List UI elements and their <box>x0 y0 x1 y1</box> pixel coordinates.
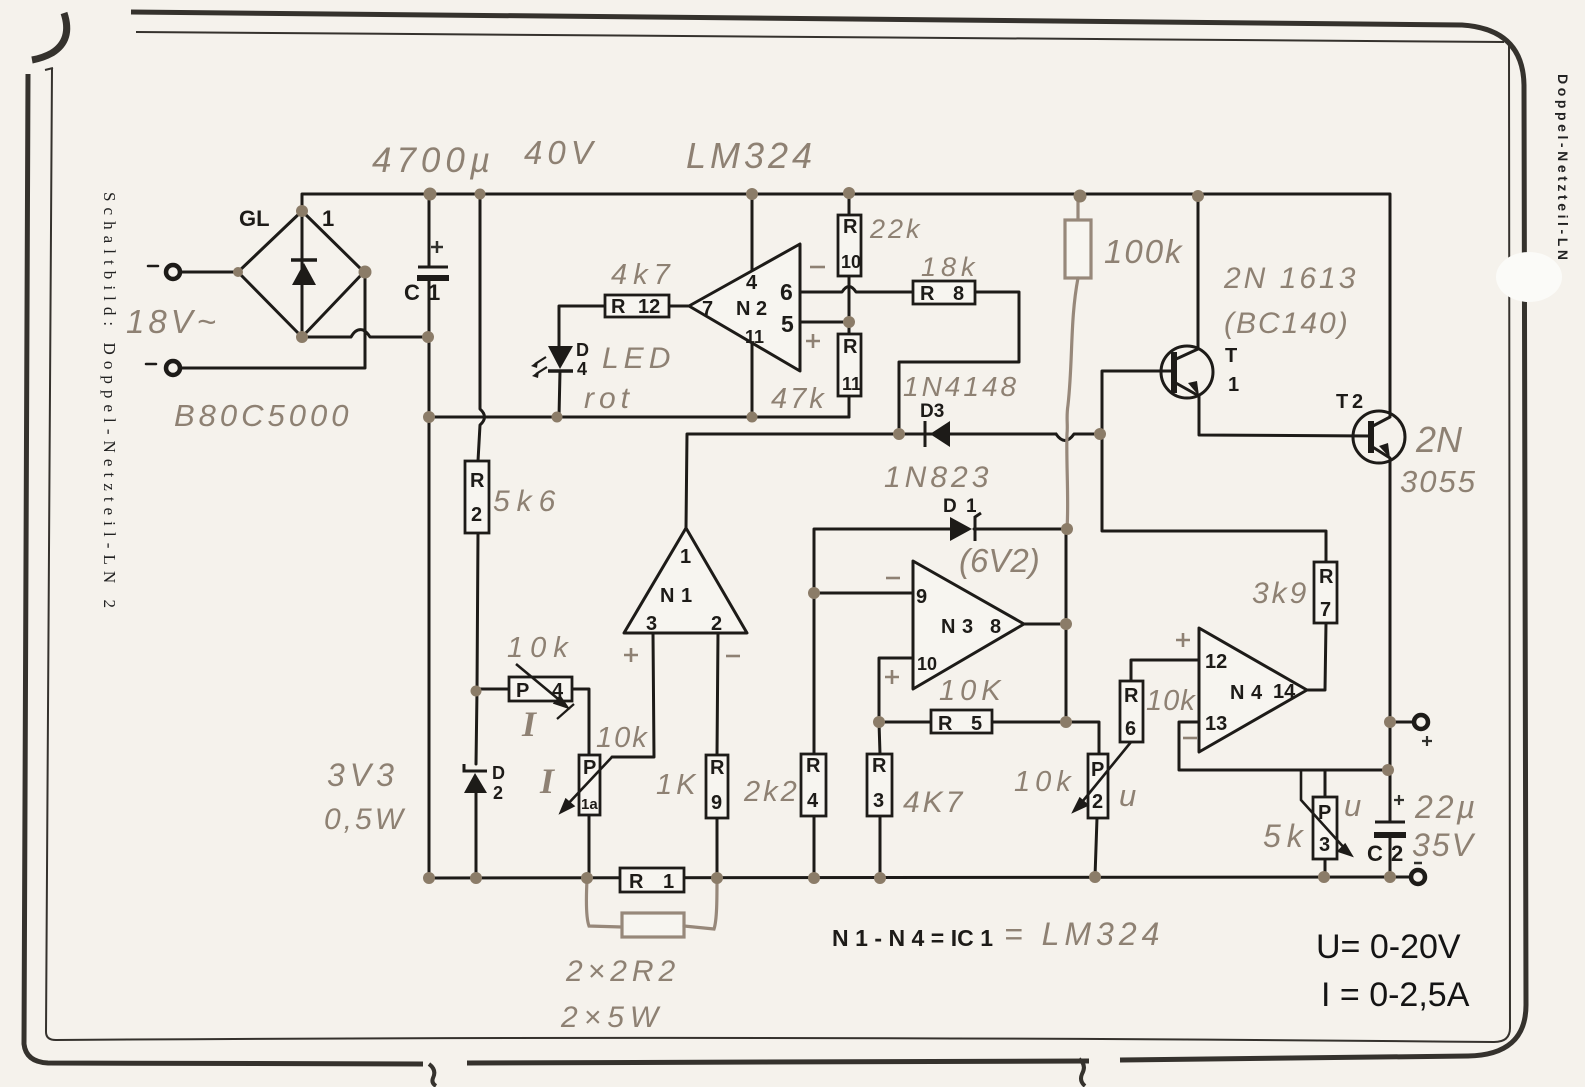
svg-text:12: 12 <box>1205 651 1227 673</box>
svg-text:22µ: 22µ <box>1414 789 1478 825</box>
svg-text:13: 13 <box>1205 713 1227 735</box>
svg-text:R: R <box>1319 566 1334 588</box>
svg-text:1: 1 <box>428 280 440 305</box>
svg-text:I: I <box>539 761 556 801</box>
svg-text:10: 10 <box>917 654 937 674</box>
svg-text:R: R <box>872 755 887 777</box>
svg-text:3: 3 <box>646 613 657 635</box>
svg-text:4700µ: 4700µ <box>372 141 495 180</box>
svg-text:R: R <box>1124 685 1139 707</box>
svg-text:P: P <box>1091 759 1104 781</box>
svg-text:4K7: 4K7 <box>903 786 965 819</box>
svg-text:Doppel-Netzteil-LN: Doppel-Netzteil-LN <box>1555 74 1571 260</box>
svg-text:47k: 47k <box>771 383 827 415</box>
svg-text:3: 3 <box>962 616 973 638</box>
svg-text:12: 12 <box>638 296 660 318</box>
svg-text:N 1 - N 4 = IC 1: N 1 - N 4 = IC 1 <box>832 925 993 951</box>
svg-text:3V3: 3V3 <box>327 757 399 793</box>
svg-text:2: 2 <box>711 613 722 635</box>
svg-text:5k: 5k <box>1263 818 1309 854</box>
svg-text:1: 1 <box>680 546 691 568</box>
svg-text:11: 11 <box>842 374 861 394</box>
svg-text:P: P <box>516 680 529 702</box>
svg-text:I: I <box>521 704 538 744</box>
svg-text:B80C5000: B80C5000 <box>174 398 353 433</box>
svg-text:10k: 10k <box>596 722 649 754</box>
svg-text:10k: 10k <box>507 632 575 664</box>
svg-text:2×5W: 2×5W <box>560 1001 664 1034</box>
svg-text:10k: 10k <box>1146 685 1196 717</box>
svg-text:40V: 40V <box>524 134 598 171</box>
svg-text:GL: GL <box>239 206 270 231</box>
svg-text:5k6: 5k6 <box>493 485 562 518</box>
svg-text:1K: 1K <box>656 769 699 801</box>
svg-text:6: 6 <box>1125 718 1136 740</box>
svg-text:1N823: 1N823 <box>884 461 992 494</box>
svg-text:D: D <box>943 496 957 517</box>
svg-text:1a: 1a <box>581 796 598 813</box>
svg-text:R: R <box>470 470 485 492</box>
svg-text:2: 2 <box>1352 391 1363 413</box>
svg-text:I = 0-2,5A: I = 0-2,5A <box>1321 976 1470 1014</box>
svg-text:u: u <box>1119 778 1136 813</box>
svg-text:9: 9 <box>711 792 722 814</box>
svg-text:R: R <box>843 336 858 358</box>
svg-text:T: T <box>1225 345 1237 367</box>
svg-text:4: 4 <box>577 359 587 379</box>
svg-text:3055: 3055 <box>1400 464 1477 499</box>
svg-text:2×2R2: 2×2R2 <box>565 955 680 988</box>
svg-text:8: 8 <box>953 283 964 305</box>
svg-text:C: C <box>1367 841 1383 866</box>
svg-text:R: R <box>710 757 725 779</box>
svg-text:N: N <box>941 616 955 638</box>
svg-text:18V~: 18V~ <box>126 303 220 340</box>
svg-text:4: 4 <box>807 790 819 812</box>
svg-text:3: 3 <box>1319 834 1330 856</box>
svg-text:1: 1 <box>322 206 334 231</box>
svg-text:7: 7 <box>1320 599 1331 621</box>
svg-text:5: 5 <box>971 713 982 735</box>
svg-text:R: R <box>920 283 935 305</box>
svg-text:10K: 10K <box>939 675 1006 707</box>
svg-text:2: 2 <box>493 783 503 803</box>
svg-text:D: D <box>576 340 589 360</box>
svg-text:C: C <box>404 280 420 305</box>
svg-text:2: 2 <box>756 298 767 320</box>
svg-text:1: 1 <box>681 585 692 607</box>
svg-text:14: 14 <box>1273 681 1296 703</box>
svg-text:1N4148: 1N4148 <box>903 371 1019 402</box>
svg-text:1: 1 <box>966 496 977 517</box>
svg-text:5: 5 <box>781 311 794 337</box>
svg-text:6: 6 <box>780 279 793 305</box>
svg-text:3k9: 3k9 <box>1252 577 1309 610</box>
svg-text:U= 0-20V: U= 0-20V <box>1316 928 1461 966</box>
svg-text:(BC140): (BC140) <box>1224 307 1350 340</box>
svg-text:8: 8 <box>990 616 1001 638</box>
svg-text:R: R <box>806 755 821 777</box>
svg-text:T: T <box>1336 391 1348 413</box>
svg-text:P: P <box>1318 802 1331 824</box>
svg-text:7: 7 <box>702 298 713 320</box>
svg-text:10k: 10k <box>1014 766 1076 798</box>
svg-text:D3: D3 <box>920 401 944 422</box>
svg-text:2k2: 2k2 <box>743 776 800 808</box>
svg-text:R: R <box>629 871 644 893</box>
svg-text:18k: 18k <box>921 252 980 282</box>
svg-text:u: u <box>1344 788 1361 823</box>
svg-text:N: N <box>660 585 674 607</box>
svg-text:LM324: LM324 <box>686 135 816 176</box>
svg-text:9: 9 <box>916 586 927 608</box>
svg-text:3: 3 <box>873 790 884 812</box>
svg-text:N: N <box>1230 682 1244 704</box>
svg-text:100k: 100k <box>1104 233 1184 270</box>
svg-text:= LM324: = LM324 <box>1004 916 1164 952</box>
svg-text:rot: rot <box>584 382 634 415</box>
svg-text:4: 4 <box>552 680 564 702</box>
svg-text:1: 1 <box>663 871 674 893</box>
svg-text:2N 1613: 2N 1613 <box>1223 262 1358 295</box>
svg-text:R: R <box>843 216 858 238</box>
svg-text:P: P <box>583 757 596 779</box>
svg-text:4: 4 <box>746 272 758 294</box>
svg-text:0,5W: 0,5W <box>324 803 406 836</box>
svg-text:2: 2 <box>1092 791 1103 813</box>
svg-text:11: 11 <box>745 327 764 347</box>
svg-text:D: D <box>492 763 505 783</box>
svg-text:R: R <box>611 296 626 318</box>
svg-text:2: 2 <box>471 504 482 526</box>
svg-text:4k7: 4k7 <box>611 259 676 291</box>
svg-text:LED: LED <box>602 342 675 375</box>
svg-text:10: 10 <box>841 252 861 272</box>
svg-text:4: 4 <box>1251 682 1263 704</box>
svg-text:35V: 35V <box>1412 827 1476 863</box>
svg-text:R: R <box>938 713 953 735</box>
svg-text:1: 1 <box>1228 374 1239 396</box>
svg-text:22k: 22k <box>869 214 923 244</box>
svg-text:N: N <box>736 298 750 320</box>
svg-text:2: 2 <box>1391 841 1403 866</box>
svg-text:2N: 2N <box>1415 419 1463 460</box>
svg-text:(6V2): (6V2) <box>959 542 1040 579</box>
